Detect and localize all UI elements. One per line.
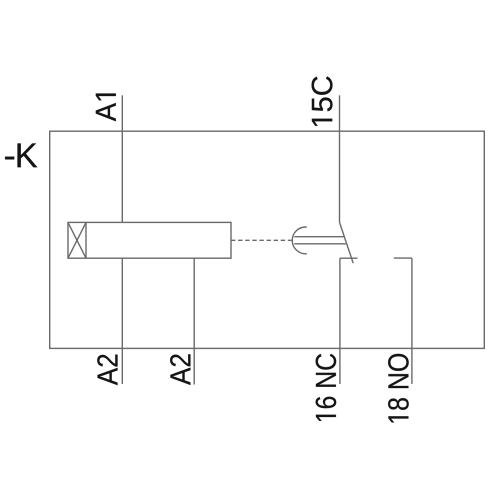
actuator arc [292,227,307,254]
wire terminal A2 lead right [193,258,195,384]
relay enclosure box K [50,131,485,348]
label 15C [312,76,333,125]
label A2 left [97,355,117,386]
NO contact tick [394,257,412,259]
wire terminal A2 lead left [121,258,123,384]
label A2 right [170,354,190,385]
coil K1 body [68,222,231,258]
coil divider [85,222,87,258]
mechanical link dashed wire [231,239,292,241]
coil X diagonal 1 [68,222,86,258]
movable contact blade [339,222,353,263]
label A1 [96,94,116,122]
actuator fork top line [294,236,343,238]
wire terminal 15 lead [339,95,341,222]
wire terminal 18 NO lead [411,258,413,384]
label 18 NO [388,354,409,423]
wire terminal A1 lead [121,95,123,222]
label -K [5,143,37,167]
wire terminal 16 NC lead [339,258,341,384]
label 16 NC [316,354,337,421]
NC contact tick [340,257,358,259]
coil X diagonal 2 [68,222,86,258]
actuator fork bottom line [294,243,346,245]
